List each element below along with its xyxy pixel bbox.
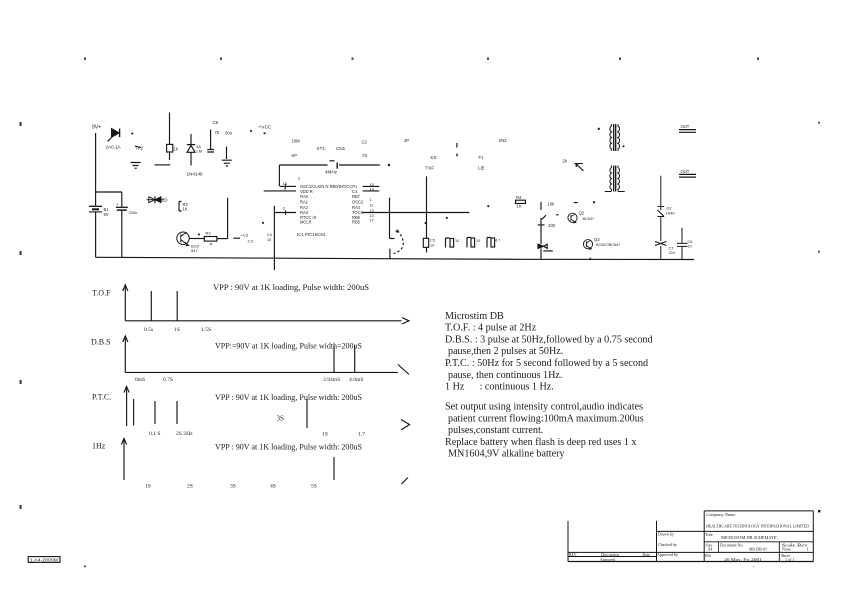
svg-text:Microstim DB: Microstim DB: [445, 311, 504, 322]
svg-text:5S: 5S: [311, 484, 317, 490]
svg-text:MICROSTIM DB SCHEMATIC: MICROSTIM DB SCHEMATIC: [721, 535, 778, 540]
svg-text:CN1: CN1: [336, 146, 346, 151]
svg-text:Company Name: Company Name: [706, 512, 735, 517]
svg-text:9V: 9V: [104, 212, 109, 217]
svg-text:VPP : 90V at 1K loading, Pulse: VPP : 90V at 1K loading, Pulse width: 20…: [215, 393, 362, 402]
svg-text:C5: C5: [430, 239, 435, 243]
svg-text:R: R: [210, 241, 213, 246]
svg-text:10: 10: [430, 243, 434, 247]
svg-text:D.B.S: D.B.S: [91, 338, 111, 347]
svg-text:MS-DB-01: MS-DB-01: [749, 547, 767, 552]
svg-text:2S: 2S: [187, 484, 193, 490]
svg-text:C9: C9: [213, 120, 219, 125]
svg-text:Q3: Q3: [594, 237, 600, 242]
svg-text:D.B.S. : 3 pulse at 50Hz,follo: D.B.S. : 3 pulse at 50Hz,followed by a 0…: [445, 334, 653, 345]
svg-text:Date: Date: [643, 553, 650, 557]
svg-text:1: 1: [370, 197, 372, 202]
svg-text:10: 10: [455, 239, 459, 243]
svg-text:BC557/BC547: BC557/BC547: [596, 243, 620, 247]
svg-text:OSC2: OSC2: [352, 199, 364, 204]
svg-text:RB5: RB5: [352, 220, 361, 225]
svg-text:1K: 1K: [517, 204, 522, 209]
svg-text:File: File: [705, 553, 711, 558]
svg-text:pause, then continuous 1Hz.: pause, then continuous 1Hz.: [448, 370, 562, 381]
svg-text:F2: F2: [363, 153, 369, 158]
svg-text:1S: 1S: [145, 484, 151, 490]
svg-text:10M: 10M: [292, 139, 301, 144]
svg-text:2.2: 2.2: [248, 239, 254, 244]
svg-text:2N2: 2N2: [499, 138, 508, 143]
svg-text:None: None: [782, 547, 791, 552]
svg-text:IC1 PIC16C54: IC1 PIC16C54: [297, 232, 326, 237]
svg-text:Drawn by: Drawn by: [658, 532, 674, 537]
svg-text:Description: Description: [601, 553, 619, 557]
svg-text:75: 75: [215, 130, 220, 135]
svg-text:2A0.1A: 2A0.1A: [106, 145, 122, 150]
svg-text:TP2: TP2: [135, 146, 144, 151]
svg-text:1S: 1S: [322, 432, 328, 438]
svg-text:XT1:: XT1:: [317, 146, 327, 151]
svg-text:OUT: OUT: [681, 169, 690, 174]
svg-text:KS: KS: [431, 155, 437, 160]
svg-text:VPP:=90V at 1K loading, Pulse: VPP:=90V at 1K loading, Pulse width=200u…: [215, 342, 362, 351]
svg-text:Approved: Approved: [600, 558, 615, 562]
svg-text:Q2: Q2: [579, 211, 585, 216]
svg-text:+C3: +C3: [241, 233, 249, 238]
svg-text:HEALTHCARE TECHNOLOGY INTERNAT: HEALTHCARE TECHNOLOGY INTERNATIONAL LIMI…: [706, 524, 810, 529]
svg-text:Set output using intensity con: Set output using intensity control,audio…: [445, 402, 643, 413]
svg-text:C2: C2: [362, 140, 368, 145]
svg-text:1.7: 1.7: [358, 432, 365, 438]
svg-text:R3: R3: [206, 231, 212, 236]
svg-text:VDD R: VDD R: [300, 189, 313, 194]
svg-text:pause,then 2 pulses at 50Hz.: pause,then 2 pulses at 50Hz.: [448, 346, 563, 357]
svg-text:Checked by: Checked by: [658, 542, 677, 547]
svg-text:30u: 30u: [225, 131, 233, 136]
svg-text:0.5s: 0.5s: [144, 327, 153, 333]
svg-text:Replace battery when flash is: Replace battery when flash is deep red u…: [445, 437, 636, 448]
svg-text:Title: Title: [705, 532, 713, 537]
svg-text:+VCC: +VCC: [259, 125, 272, 131]
svg-text:1N40: 1N40: [666, 212, 675, 216]
svg-text:1 Hz : continuous 1 Hz.: 1 Hz : continuous 1 Hz.: [445, 382, 554, 393]
svg-text:P.T.C. : 50Hz for 5 second f: P.T.C. : 50Hz for 5 second followed by a…: [445, 358, 648, 369]
svg-text:R4: R4: [516, 195, 522, 200]
svg-text:1 of 1: 1 of 1: [785, 557, 794, 562]
svg-text:TXF: TXF: [426, 166, 435, 171]
svg-text:VPP : 90V at 1K loading, Pulse: VPP : 90V at 1K loading, Pulse width: 20…: [213, 283, 369, 292]
svg-text:1N4148: 1N4148: [187, 172, 204, 177]
svg-text:1.5S: 1.5S: [201, 327, 211, 333]
svg-text:15: 15: [267, 238, 271, 242]
svg-text:+: +: [116, 202, 119, 207]
svg-text:T.O.F: T.O.F: [92, 289, 111, 298]
svg-text:LIE: LIE: [478, 166, 485, 171]
svg-text:0mS: 0mS: [135, 377, 145, 383]
svg-text:547: 547: [191, 248, 198, 253]
svg-text:4.0mS: 4.0mS: [349, 377, 363, 383]
svg-text:22n: 22n: [669, 251, 675, 255]
svg-text:3S: 3S: [277, 415, 285, 423]
svg-text:1S: 1S: [174, 327, 180, 333]
svg-text:1Hz: 1Hz: [92, 442, 106, 451]
svg-text:LM: LM: [197, 149, 203, 154]
svg-text:A4: A4: [708, 547, 713, 552]
svg-text:C4: C4: [267, 233, 272, 237]
svg-text:pulses,constant current.: pulses,constant current.: [448, 425, 543, 436]
svg-text:C6: C6: [688, 240, 693, 244]
svg-text:REV: REV: [569, 553, 577, 557]
svg-text:ZD: ZD: [162, 198, 168, 203]
svg-text:BC547: BC547: [583, 217, 595, 221]
svg-text:10k: 10k: [548, 202, 556, 207]
svg-text:220u: 220u: [129, 210, 138, 215]
svg-text:17: 17: [370, 217, 374, 222]
svg-text:100: 100: [548, 223, 556, 228]
svg-text:2S 2Hz: 2S 2Hz: [176, 431, 193, 437]
svg-text:,: ,: [753, 564, 754, 569]
svg-text:patient current flowing:100mA: patient current flowing:100mA maximum.20…: [448, 413, 644, 424]
svg-text:JP: JP: [404, 138, 409, 143]
svg-text:4.7: 4.7: [495, 239, 500, 243]
svg-text:10: 10: [476, 239, 480, 243]
svg-text:3S: 3S: [230, 484, 236, 490]
svg-text:MN1604,9V alkaline battery: MN1604,9V alkaline battery: [448, 449, 565, 460]
svg-text:0.7S: 0.7S: [163, 377, 173, 383]
svg-text:MCLR: MCLR: [300, 220, 312, 225]
svg-text:1.A4-2000M: 1.A4-2000M: [30, 558, 59, 563]
svg-text:9V+: 9V+: [92, 125, 101, 131]
svg-text:D2: D2: [667, 206, 673, 211]
svg-text:OUT: OUT: [681, 124, 690, 129]
svg-text:4MHz: 4MHz: [325, 170, 338, 175]
svg-text:F1: F1: [479, 155, 485, 160]
svg-text:3.94mS: 3.94mS: [323, 377, 340, 383]
svg-text:T.O.F. : 4 pulse at 2Hz: T.O.F. : 4 pulse at 2Hz: [445, 323, 537, 334]
svg-text:VPP : 90V at 1K loading, Pulse: VPP : 90V at 1K loading, Pulse width: 20…: [215, 443, 362, 452]
svg-text:KP: KP: [292, 153, 298, 158]
svg-text:4S: 4S: [270, 484, 276, 490]
svg-text:RA1: RA1: [300, 199, 309, 204]
svg-text:1K: 1K: [183, 206, 188, 211]
svg-text:0.1 S: 0.1 S: [149, 431, 161, 437]
svg-text:1: 1: [807, 547, 809, 552]
svg-text:Approved by: Approved by: [657, 552, 678, 557]
svg-text:Document No.: Document No.: [720, 542, 744, 547]
svg-text:10: 10: [688, 244, 692, 248]
svg-text:P.T.C.: P.T.C.: [92, 393, 111, 402]
svg-text:C4: C4: [352, 189, 358, 194]
